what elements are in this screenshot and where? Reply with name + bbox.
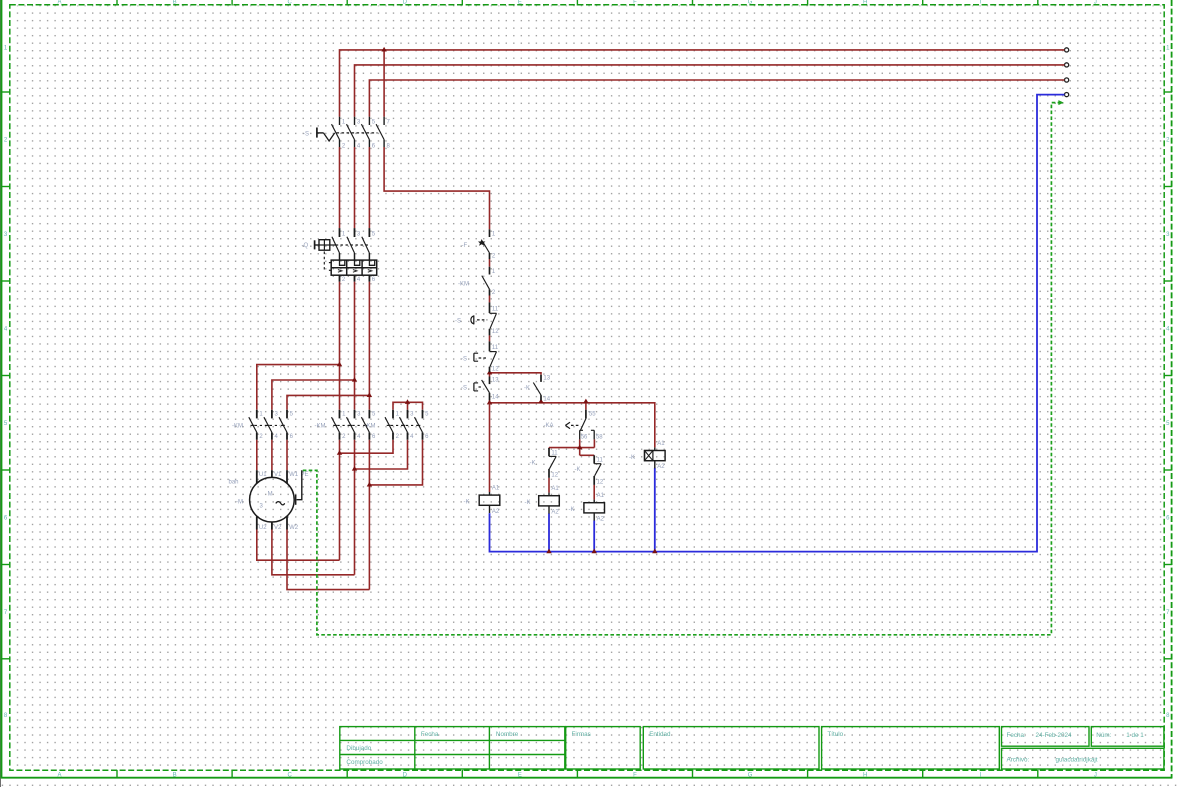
svg-text:A1: A1 bbox=[492, 486, 500, 492]
neutral bus bbox=[490, 95, 1065, 552]
svg-text:12: 12 bbox=[492, 329, 499, 335]
motor M1 bbox=[256, 470, 258, 483]
svg-text:-M: -M bbox=[236, 500, 243, 506]
disconnect switch S1 (4-pole) bbox=[339, 117, 341, 125]
wire breaker out phase 2 bbox=[354, 282, 356, 410]
svg-text:A2: A2 bbox=[551, 509, 559, 515]
svg-text:B: B bbox=[173, 0, 177, 5]
wire control feed from pole 8 bbox=[384, 147, 489, 229]
svg-text:Núm:: Núm: bbox=[1096, 732, 1111, 739]
wire delta contactor out column 2 bbox=[354, 440, 356, 575]
svg-text:13: 13 bbox=[543, 376, 550, 382]
svg-text:-S: -S bbox=[455, 318, 461, 324]
svg-text:Archivo:: Archivo: bbox=[1007, 756, 1030, 763]
title block Titulo box bbox=[822, 727, 1000, 769]
node seal bus bbox=[538, 399, 543, 404]
svg-text:guiacdatriojkajt: guiacdatriojkajt bbox=[1056, 756, 1098, 763]
node star-delta 1 bbox=[337, 450, 342, 455]
wire feed to line contactor phase 1 bbox=[257, 365, 340, 410]
svg-text:Título: Título bbox=[827, 731, 843, 738]
svg-text:56: 56 bbox=[581, 434, 588, 440]
coil K2 bbox=[548, 493, 550, 496]
wire star contactor out 6 bbox=[369, 440, 422, 485]
node neutral K2 bbox=[546, 549, 551, 554]
PE cable dashed path bbox=[303, 103, 1059, 635]
node phase 1 tap bbox=[337, 362, 342, 367]
terminal N bbox=[1065, 93, 1069, 97]
svg-text:A: A bbox=[57, 772, 61, 778]
frame row ticks right bbox=[1164, 91, 1173, 93]
wire star contactor out 2 bbox=[340, 440, 394, 454]
svg-text:U1: U1 bbox=[259, 472, 267, 478]
wire coil KA to neutral bbox=[654, 468, 656, 552]
svg-text:-K: -K bbox=[575, 467, 581, 473]
node neutral K3 bbox=[592, 549, 597, 554]
svg-text:A2: A2 bbox=[657, 464, 665, 470]
frame column ticks top bbox=[116, 0, 118, 6]
svg-text:Fecha: Fecha bbox=[421, 731, 439, 738]
wire switch to breaker phase 3 bbox=[368, 147, 370, 228]
svg-text:-S: -S bbox=[303, 131, 309, 137]
node phase 2 tap bbox=[352, 377, 357, 382]
wire delta contactor out column 1 bbox=[339, 440, 341, 561]
node L1 tap bbox=[381, 47, 386, 52]
svg-text:-F: -F bbox=[462, 243, 468, 249]
wire timer 56 down bbox=[579, 439, 581, 455]
wire bus to timer contact bbox=[585, 403, 587, 410]
svg-text:B: B bbox=[173, 772, 177, 778]
node phase 3 tap bbox=[367, 392, 372, 397]
frame outer border bbox=[0, 0, 2, 778]
wire F to KM aux bbox=[489, 259, 491, 267]
wire main column to coil K1 bbox=[489, 403, 491, 492]
svg-text:Entidad: Entidad bbox=[649, 731, 671, 738]
wire timer 58 down bbox=[593, 439, 595, 447]
start button S4 bbox=[489, 377, 491, 385]
svg-text:-K: -K bbox=[530, 460, 536, 466]
wire feed to line contactor phase 3 bbox=[287, 395, 369, 409]
frame column ticks bottom bbox=[116, 770, 118, 779]
motor PE wire bbox=[297, 470, 302, 500]
svg-text:J: J bbox=[1094, 772, 1097, 778]
NC contact K left bbox=[548, 448, 550, 456]
coil K3 bbox=[593, 500, 595, 503]
seal-in contact K1 bbox=[540, 375, 542, 382]
svg-text:-KM: -KM bbox=[315, 423, 326, 429]
svg-text:1 de 1: 1 de 1 bbox=[1126, 732, 1144, 739]
NC contact K right bbox=[593, 455, 595, 463]
wire line contactor out W1 bbox=[286, 440, 288, 471]
wire L3 top bbox=[369, 80, 1064, 117]
svg-text:11: 11 bbox=[492, 306, 499, 312]
svg-text:C: C bbox=[288, 0, 293, 5]
node timer bus bbox=[583, 399, 588, 404]
terminal L3 bbox=[1065, 78, 1069, 82]
svg-text:A2: A2 bbox=[492, 509, 500, 515]
node star-delta 3 bbox=[367, 482, 372, 487]
wire emergency stop to stop button bbox=[489, 335, 491, 341]
node branch bbox=[487, 370, 492, 375]
svg-text:14: 14 bbox=[543, 397, 550, 403]
svg-text:Fecha:: Fecha: bbox=[1007, 732, 1027, 739]
wire 56-58 cross link bbox=[549, 447, 594, 449]
title block Fecha box bbox=[1002, 727, 1090, 747]
screenshot left edge bbox=[0, 0, 2, 787]
svg-text:14: 14 bbox=[492, 395, 499, 401]
node bus left bbox=[487, 400, 492, 405]
svg-text:M: M bbox=[268, 492, 273, 498]
wire jog to right NC contact bbox=[580, 454, 595, 456]
svg-text:12: 12 bbox=[492, 367, 499, 373]
stop button S3 bbox=[489, 341, 491, 351]
svg-text:A2: A2 bbox=[597, 516, 605, 522]
svg-text:55: 55 bbox=[589, 412, 596, 418]
svg-text:E: E bbox=[518, 772, 522, 778]
coil KA (timer) bbox=[654, 447, 656, 450]
svg-text:bah: bah bbox=[229, 480, 239, 486]
wire star contactor out 4 bbox=[355, 440, 408, 469]
svg-text:Nombre: Nombre bbox=[496, 731, 519, 738]
wire star bridge bbox=[393, 402, 423, 410]
svg-text:-KM: -KM bbox=[365, 423, 376, 429]
svg-text:-K: -K bbox=[525, 500, 531, 506]
wire line contactor out U1 bbox=[256, 440, 258, 471]
control bus bbox=[490, 403, 655, 448]
svg-text:12: 12 bbox=[597, 480, 604, 486]
svg-text:G: G bbox=[748, 772, 753, 778]
emergency stop button S2 bbox=[489, 302, 491, 313]
svg-text:J: J bbox=[1094, 0, 1097, 5]
svg-text:-K: -K bbox=[524, 386, 530, 392]
svg-text:Comprobado: Comprobado bbox=[346, 759, 383, 766]
wire L1 tap to pole 7 bbox=[383, 50, 385, 117]
svg-text:F: F bbox=[633, 0, 637, 5]
svg-text:E: E bbox=[518, 0, 522, 5]
coil K1 bbox=[489, 492, 491, 495]
wire left NC to coil K2 bbox=[548, 478, 550, 493]
title block Num box bbox=[1091, 727, 1164, 747]
wire seal contact to bus bbox=[540, 400, 542, 403]
wire breaker out phase 1 bbox=[339, 282, 341, 410]
wire L1 top bbox=[340, 50, 1065, 117]
svg-text:-S: -S bbox=[461, 386, 467, 392]
wire to left NC contact bbox=[548, 448, 550, 449]
wire delta contactor out column 3 bbox=[368, 440, 370, 590]
contactor KM3 (star) bbox=[392, 410, 394, 419]
svg-text:11: 11 bbox=[551, 450, 558, 456]
svg-text:A1: A1 bbox=[551, 486, 559, 492]
title block Archivo box bbox=[1002, 748, 1164, 769]
svg-text:C: C bbox=[288, 772, 293, 778]
svg-text:58: 58 bbox=[596, 434, 603, 440]
svg-text:-KM: -KM bbox=[458, 281, 469, 287]
PE cable arrowhead bbox=[1058, 100, 1063, 105]
title block Firmas box bbox=[566, 727, 641, 769]
wire feed to line contactor phase 2 bbox=[272, 380, 355, 410]
svg-text:V1: V1 bbox=[274, 472, 282, 478]
svg-text:U2: U2 bbox=[259, 525, 267, 531]
svg-text:13: 13 bbox=[492, 378, 499, 384]
svg-text:W1: W1 bbox=[289, 472, 299, 478]
svg-text:-Q: -Q bbox=[302, 243, 309, 249]
svg-text:11: 11 bbox=[597, 458, 604, 464]
svg-text:-K: -K bbox=[569, 507, 575, 513]
svg-text:24-Feb-2024: 24-Feb-2024 bbox=[1036, 732, 1073, 739]
node star bridge bbox=[405, 399, 410, 404]
title block Entidad box bbox=[643, 727, 819, 769]
svg-text:-K: -K bbox=[464, 500, 470, 506]
svg-text:-S: -S bbox=[461, 357, 467, 363]
wire line contactor out V1 bbox=[271, 440, 273, 471]
wire coil K3 to neutral bbox=[593, 521, 595, 552]
wire L2 top bbox=[355, 65, 1065, 117]
svg-text:A: A bbox=[57, 0, 61, 5]
node star-delta 2 bbox=[352, 466, 357, 471]
svg-text:-KM: -KM bbox=[232, 423, 243, 429]
svg-text:Firmas: Firmas bbox=[572, 731, 591, 738]
wire KM aux to emergency stop bbox=[489, 296, 491, 303]
wire coil K2 to neutral bbox=[548, 513, 550, 551]
svg-text:D: D bbox=[403, 0, 408, 5]
svg-text:11: 11 bbox=[492, 345, 499, 351]
auxiliary contact KM bbox=[489, 267, 491, 275]
svg-text:-KA: -KA bbox=[544, 423, 554, 429]
wire start button to bus bbox=[489, 400, 491, 403]
terminal L1 bbox=[1065, 48, 1069, 52]
svg-text:12: 12 bbox=[551, 473, 558, 479]
contactor KM1 (line) bbox=[256, 410, 258, 419]
svg-text:W2: W2 bbox=[289, 525, 299, 531]
wire switch to breaker phase 2 bbox=[354, 147, 356, 228]
svg-text:F: F bbox=[633, 772, 637, 778]
contactor KM2 (delta) bbox=[339, 410, 341, 419]
wire stop button to start button bbox=[489, 372, 491, 376]
svg-text:V2: V2 bbox=[274, 525, 282, 531]
svg-text:Dibujado: Dibujado bbox=[346, 745, 371, 752]
terminal L2 bbox=[1065, 63, 1069, 67]
wire branch to seal contact bbox=[490, 373, 542, 375]
svg-text:D: D bbox=[403, 772, 408, 778]
wire right NC to coil K3 bbox=[593, 485, 595, 500]
frame row ticks left bbox=[1, 91, 11, 93]
wire switch to breaker phase 1 bbox=[339, 147, 341, 228]
svg-text:H: H bbox=[863, 772, 867, 778]
wire breaker out phase 3 bbox=[368, 282, 370, 410]
svg-text:G: G bbox=[748, 0, 753, 5]
svg-text:A1: A1 bbox=[597, 493, 605, 499]
title block left box (Dibujado/Comprobado) bbox=[340, 727, 565, 769]
svg-text:H: H bbox=[863, 0, 867, 5]
overload relay contact F1 bbox=[489, 229, 491, 237]
wire motor U2 return bbox=[257, 530, 340, 561]
node neutral KA bbox=[652, 549, 657, 554]
timer changeover contact KA bbox=[585, 410, 587, 419]
motor circuit breaker Q1 bbox=[339, 228, 341, 237]
svg-text:A1: A1 bbox=[657, 441, 665, 447]
svg-text:-K: -K bbox=[629, 455, 635, 461]
wire motor V2 return bbox=[272, 530, 355, 575]
wire motor W2 return bbox=[287, 530, 369, 590]
node 56 junction bbox=[577, 445, 582, 450]
